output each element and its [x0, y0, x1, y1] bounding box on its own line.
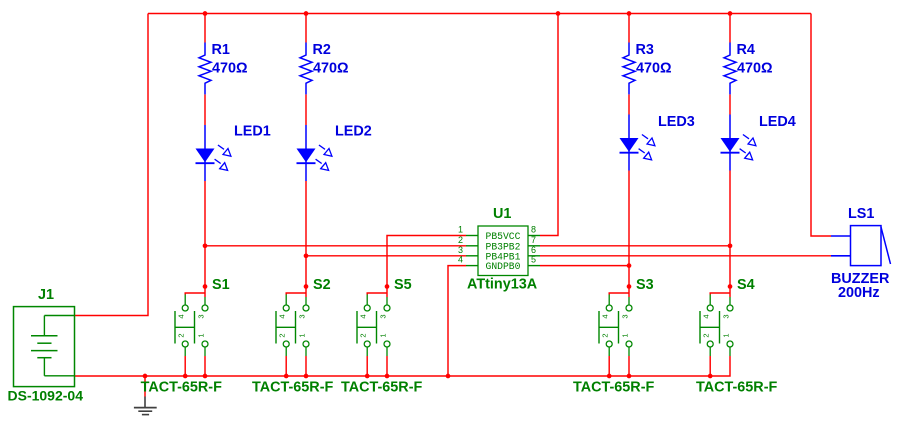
junction column / switch S5	[385, 284, 390, 289]
junction top bus / U1 pin 8 riser	[556, 11, 561, 16]
svg-text:4: 4	[458, 255, 463, 265]
svg-text:1: 1	[458, 225, 463, 235]
wire S2 pin 1 to ground bus	[305, 356, 307, 376]
wire top bus to R4	[729, 14, 731, 43]
svg-text:S4: S4	[737, 277, 755, 293]
wire ground riser	[144, 376, 146, 397]
resistor R2	[300, 43, 312, 95]
wire U1 pin 2 to node at column 1	[205, 245, 466, 247]
junction column / switch S4	[728, 284, 733, 289]
IC U1 (ATtiny13A) body	[466, 226, 540, 276]
wire S1 pin 1 to ground bus	[204, 356, 206, 376]
svg-text:470Ω: 470Ω	[313, 61, 349, 77]
svg-text:4: 4	[702, 314, 711, 318]
wire S1 top bracket	[204, 287, 206, 298]
junction ground bus / S4 pin 2	[708, 374, 713, 379]
junction pin2 wire / column 1	[203, 243, 208, 248]
svg-text:5: 5	[531, 255, 536, 265]
resistor R1	[199, 43, 211, 95]
svg-text:S2: S2	[313, 277, 331, 293]
svg-text:R2: R2	[313, 42, 331, 58]
svg-text:1: 1	[298, 333, 307, 337]
svg-text:1: 1	[621, 333, 630, 337]
svg-text:S1: S1	[212, 277, 230, 293]
wire top bus to R1	[204, 14, 206, 43]
wire top bus to R3	[628, 14, 630, 43]
wire S4 top bracket	[729, 287, 731, 298]
svg-text:1: 1	[197, 333, 206, 337]
svg-text:4: 4	[278, 314, 287, 318]
svg-text:S5: S5	[394, 277, 412, 293]
svg-text:S3: S3	[636, 277, 654, 293]
LED LED2	[297, 125, 332, 181]
svg-text:2: 2	[458, 235, 463, 245]
svg-text:2: 2	[702, 333, 711, 337]
svg-text:GNDPB0: GNDPB0	[486, 261, 521, 272]
wire R2 to LED2	[305, 94, 307, 125]
LED LED3	[620, 115, 655, 171]
svg-text:2: 2	[177, 333, 186, 337]
junction ground bus / S2 pin 2	[284, 374, 289, 379]
wire LED4 to switch column 4	[729, 171, 731, 287]
junction column / switch S1	[203, 284, 208, 289]
battery J1	[14, 307, 75, 387]
junction top bus / column 3	[627, 11, 632, 16]
svg-text:4: 4	[601, 314, 610, 318]
LED LED4	[721, 115, 756, 171]
wire S2 pin 2 to ground bus	[285, 356, 287, 376]
wire R4 to LED4	[729, 94, 731, 114]
junction column / switch S3	[627, 284, 632, 289]
junction pin3 wire / column 2	[304, 253, 309, 258]
svg-text:2: 2	[278, 333, 287, 337]
junction ground bus / S3 pin 1	[627, 374, 632, 379]
svg-text:R1: R1	[212, 42, 230, 58]
svg-text:2: 2	[601, 333, 610, 337]
svg-text:ATtiny13A: ATtiny13A	[467, 277, 538, 293]
switch S5 body	[357, 295, 390, 357]
resistor R3	[623, 43, 635, 95]
svg-text:TACT-65R-F: TACT-65R-F	[573, 380, 654, 396]
junction ground bus / ground symbol	[143, 374, 148, 379]
wire U1 pin 1 to S5	[387, 236, 466, 287]
svg-text:LED3: LED3	[658, 114, 695, 130]
wire U1 pin 7 to node at column 4	[540, 245, 730, 247]
LED LED1	[196, 125, 231, 181]
svg-text:3: 3	[379, 314, 388, 318]
svg-text:200Hz: 200Hz	[838, 285, 880, 301]
wire S5 pin 2 to ground bus	[366, 356, 368, 376]
buzzer LS1	[831, 226, 891, 266]
svg-text:1: 1	[722, 333, 731, 337]
svg-text:470Ω: 470Ω	[737, 61, 773, 77]
switch S2 body	[276, 295, 309, 357]
resistor R4	[724, 43, 736, 95]
junction ground bus / S3 pin 2	[607, 374, 612, 379]
svg-text:DS-1092-04: DS-1092-04	[8, 388, 84, 404]
switch S4 body	[700, 295, 733, 357]
junction ground bus / S1 pin 1	[203, 374, 208, 379]
svg-text:LED1: LED1	[234, 123, 271, 139]
svg-text:U1: U1	[493, 206, 511, 222]
ground	[134, 397, 157, 415]
svg-text:7: 7	[531, 235, 536, 245]
svg-text:LED2: LED2	[335, 123, 372, 139]
junction column / switch S2	[304, 284, 309, 289]
wire S2 top bracket	[305, 287, 307, 298]
wire U1 pin 3 to node at column 2	[306, 255, 466, 257]
junction ground bus / S5 pin 1	[385, 374, 390, 379]
svg-text:3: 3	[458, 245, 463, 255]
junction pin5 wire / column 3	[627, 263, 632, 268]
svg-text:2: 2	[359, 333, 368, 337]
svg-text:1: 1	[379, 333, 388, 337]
wire R1 to LED1	[204, 94, 206, 125]
svg-text:6: 6	[531, 245, 536, 255]
svg-text:TACT-65R-F: TACT-65R-F	[341, 380, 422, 396]
wire S3 top bracket	[628, 287, 630, 298]
svg-text:470Ω: 470Ω	[636, 61, 672, 77]
svg-text:3: 3	[621, 314, 630, 318]
junction pin7 wire / column 4	[728, 243, 733, 248]
wire LED1 to switch column 1	[204, 181, 206, 287]
wire U1 pin 6 to buzzer pin 2	[540, 255, 831, 257]
wire LED3 to switch column 3	[628, 171, 630, 287]
svg-text:J1: J1	[38, 287, 54, 303]
svg-text:R3: R3	[636, 42, 654, 58]
wire left trunk from top bus to J1	[75, 14, 149, 316]
wire LED2 to switch column 2	[305, 181, 307, 287]
svg-text:TACT-65R-F: TACT-65R-F	[696, 380, 777, 396]
svg-text:8: 8	[531, 225, 536, 235]
svg-text:3: 3	[722, 314, 731, 318]
wire U1 pin 5 to node at column 3	[540, 265, 629, 267]
wire S3 pin 1 to ground bus	[628, 356, 630, 376]
wire top bus to R2	[305, 14, 307, 43]
svg-text:LS1: LS1	[848, 206, 874, 222]
junction ground bus / U1 pin 4 wire	[446, 374, 451, 379]
switch S3 body	[599, 295, 632, 357]
wire R3 to LED3	[628, 94, 630, 114]
junction ground bus / S1 pin 2	[183, 374, 188, 379]
svg-text:TACT-65R-F: TACT-65R-F	[141, 380, 222, 396]
svg-text:R4: R4	[737, 42, 755, 58]
junction top bus / column 1	[203, 11, 208, 16]
wire S5 top bracket	[386, 287, 388, 298]
svg-text:4: 4	[359, 314, 368, 318]
wire S5 pin 1 to ground bus	[386, 356, 388, 376]
junction top bus / column 4	[728, 11, 733, 16]
svg-text:3: 3	[298, 314, 307, 318]
svg-text:470Ω: 470Ω	[212, 61, 248, 77]
wire U1 pin 4 to ground bus	[448, 266, 466, 376]
wire S4 pin 2 to ground bus	[709, 356, 711, 376]
svg-text:3: 3	[197, 314, 206, 318]
svg-text:LED4: LED4	[759, 114, 796, 130]
wire U1 pin 8 to top bus	[540, 14, 558, 236]
wire bottom ground bus	[75, 356, 731, 376]
switch S1 body	[175, 295, 208, 357]
junction ground bus / S5 pin 2	[365, 374, 370, 379]
junction top bus / column 2	[304, 11, 309, 16]
wire S1 pin 2 to ground bus	[184, 356, 186, 376]
wire S3 pin 2 to ground bus	[608, 356, 610, 376]
svg-text:4: 4	[177, 314, 186, 318]
junction ground bus / S2 pin 1	[304, 374, 309, 379]
svg-text:TACT-65R-F: TACT-65R-F	[252, 380, 333, 396]
wire right drop from top bus to buzzer pin 1	[811, 14, 831, 237]
wire top power bus	[148, 13, 811, 15]
